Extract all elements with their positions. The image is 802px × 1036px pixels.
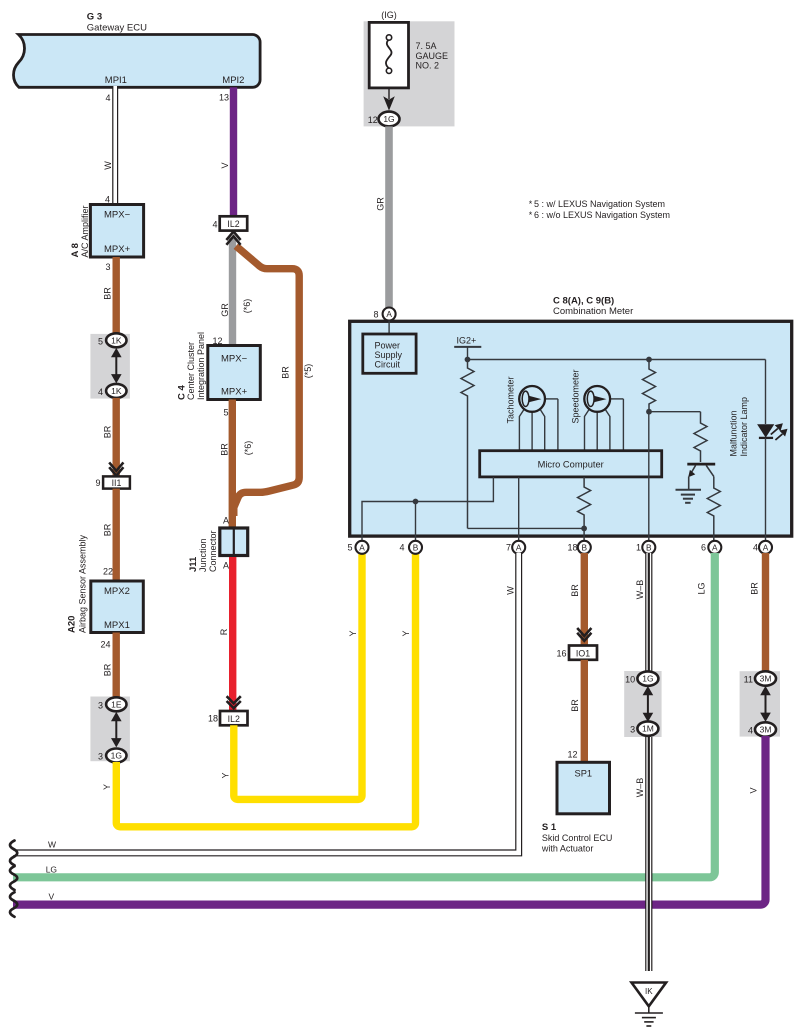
connector II1 [95,476,129,488]
component A20 Airbag Sensor Assembly [67,534,144,633]
svg-text:Y: Y [221,772,231,778]
pin 8 A top [373,308,395,321]
wire BR pin 18B to IO1 [570,553,588,646]
double arrow between 1G and 1M [643,686,654,722]
svg-text:R: R [219,628,229,635]
wire pin 1B vertical [648,412,650,548]
pin 5 A meter [347,541,368,554]
pin 4 B meter [399,541,422,554]
wire BR A8 to 1K [103,257,120,334]
svg-text:10: 10 [625,675,635,685]
svg-text:BR: BR [570,584,580,597]
svg-text:MPI1: MPI1 [105,75,127,86]
svg-text:Malfunction: Malfunction [729,410,739,456]
svg-text:GAUGE: GAUGE [416,51,449,61]
svg-text:A: A [359,542,365,552]
label Y below pin 5A [348,630,358,636]
svg-text:A: A [763,542,769,552]
block Power Supply Circuit [363,334,416,373]
component A8 A/C Amplifier [70,205,144,258]
svg-text:MPX−: MPX− [221,354,248,365]
svg-text:1: 1 [636,543,641,553]
pin 3 below A8 [105,262,110,272]
svg-text:MPX+: MPX+ [104,244,131,255]
svg-text:BR: BR [281,366,291,379]
svg-text:BR: BR [103,425,113,438]
svg-text:4: 4 [748,726,753,736]
pin 5 below C4 [223,408,228,418]
node IG2+ rail [454,335,765,362]
pin A above J11 [223,516,229,526]
svg-text:7. 5A: 7. 5A [416,41,437,51]
wire R1 to pin18 node [468,527,585,529]
svg-text:BR: BR [103,287,113,300]
svg-text:LG: LG [697,582,707,594]
wire Y from 1G to meter pin 4B [102,553,416,827]
wire micro to pin 7A [518,477,520,548]
connector 11 3M [744,671,776,685]
pin A below J11 [223,561,229,571]
wire V from G3 MPI2 to IL2 [220,87,237,217]
connector 4 IL2 top [212,216,247,230]
ground symbol transistor emitter [676,490,702,503]
fuse block gray background [364,21,455,126]
svg-text:GR: GR [376,197,386,211]
resistor R3 base [694,412,707,462]
svg-text:S 1: S 1 [542,822,557,833]
svg-text:B: B [582,542,588,552]
wire R J11 to IL2 bottom [219,557,236,711]
svg-text:4: 4 [105,93,110,103]
svg-text:MPX1: MPX1 [104,620,130,631]
wire W-B pin 1B to ground [635,553,649,971]
svg-text:SP1: SP1 [575,769,593,779]
label C8(A) C9(B) Combination Meter [553,295,633,317]
svg-text:(IG): (IG) [381,10,397,20]
svg-text:24: 24 [100,640,110,650]
svg-text:4: 4 [399,543,404,553]
label (IG) [381,10,397,20]
svg-text:13: 13 [219,93,229,103]
pin 4 A meter right [753,541,772,554]
resistor R1 below IG2+ [461,360,474,529]
svg-text:Speedometer: Speedometer [571,369,581,423]
svg-text:GR: GR [220,303,230,317]
wire Y from IL2 bottom to meter pin 5A [221,553,363,799]
svg-text:BR: BR [750,582,760,595]
wire GR IL2 to C4 pin 12 [220,238,252,346]
svg-text:Tachometer: Tachometer [506,376,516,423]
svg-text:BR: BR [220,443,230,456]
svg-text:Y: Y [348,630,358,636]
connector J11 Junction Connector [188,528,248,572]
wire BR A20 to 1E [103,633,120,698]
wire node to transistor branch [649,411,701,413]
svg-text:C 8(A), C 9(B): C 8(A), C 9(B) [553,295,614,306]
svg-text:12: 12 [567,750,577,760]
pin 6 A meter [701,541,721,554]
svg-text:A: A [386,309,392,319]
svg-text:V: V [49,892,55,902]
pin 22 above A20 [103,567,113,577]
svg-text:BR: BR [103,663,113,676]
wire BR (*5) bypass from IL2 to J11 [234,246,313,516]
svg-text:1K: 1K [111,386,122,396]
svg-text:II1: II1 [112,478,122,488]
wire BR II1 to A20 [103,489,120,582]
wire W from G3 MPI1 to A8 MPX- [103,86,115,205]
pin 12 above C4 [212,336,222,346]
svg-text:MPX−: MPX− [104,210,131,221]
svg-text:A: A [223,561,229,571]
svg-text:(*6): (*6) [243,441,253,456]
wire V 3M to left edge [13,736,766,905]
note *5 *6 LEXUS Navigation [529,199,670,220]
svg-text:(*5): (*5) [303,364,313,379]
harness continuation squiggle W [10,841,17,866]
svg-text:1G: 1G [642,674,653,684]
arrow from fuse to 1G [383,88,395,111]
ECU G3 Gateway ECU body [14,35,261,88]
svg-text:Center Cluster: Center Cluster [186,342,196,400]
svg-text:Combination Meter: Combination Meter [553,306,633,317]
svg-text:W: W [48,840,56,850]
svg-text:16: 16 [556,649,566,659]
connector 3 1M [630,721,658,735]
svg-text:3M: 3M [760,725,772,735]
component C4 Center Cluster Integration Panel [176,332,260,400]
pin 12 above SP1 [567,750,577,760]
connector 3 1G [98,749,127,763]
svg-text:Airbag Sensor Assembly: Airbag Sensor Assembly [78,534,88,633]
svg-text:Power: Power [375,340,401,350]
svg-text:B: B [413,542,419,552]
component S1 Skid Control ECU SP1 [541,762,613,853]
svg-text:Y: Y [401,630,411,636]
node G3 Gateway ECU label [87,12,147,34]
pin 7 A meter [506,541,525,554]
svg-text:V: V [220,162,230,168]
wire BR (*6) C4 to J11 [220,400,254,529]
connector 5 1K [98,333,127,347]
chevron splice below IL2 top [226,232,240,245]
wire BR pin 4A to 3M [750,553,770,673]
wire BR IO1 to SP1 [570,660,588,763]
svg-text:* 5 : w/ LEXUS Navigation Syst: * 5 : w/ LEXUS Navigation System [529,199,665,209]
connector 16 IO1 [556,646,597,660]
wire W pin 7A to left edge [13,553,519,853]
svg-text:9: 9 [95,478,100,488]
speedometer gauge [571,369,624,450]
svg-text:W–B: W–B [635,778,645,798]
resistor R4 collector to pin 6A [707,477,720,549]
svg-text:MPI2: MPI2 [222,75,244,86]
svg-text:4: 4 [212,220,217,230]
svg-text:1G: 1G [383,114,394,124]
svg-text:Indicator Lamp: Indicator Lamp [739,397,749,457]
svg-text:BR: BR [103,523,113,536]
wire pin8 to power supply circuit [388,321,390,335]
harness continuation squiggle LG [10,866,17,890]
double arrow between 3M connectors [760,686,771,722]
connector 3 1E [98,697,127,711]
svg-text:12: 12 [368,115,378,125]
connector 4 1K [98,384,127,398]
ECU Combination Meter body [350,321,792,536]
svg-text:W: W [103,161,113,170]
svg-text:Junction: Junction [198,538,208,572]
svg-text:3: 3 [630,725,635,735]
svg-text:Circuit: Circuit [375,359,401,369]
svg-text:3: 3 [105,262,110,272]
svg-text:4: 4 [98,387,103,397]
svg-text:1E: 1E [111,699,122,709]
svg-text:7: 7 [506,543,511,553]
connector 10 1G [625,671,658,685]
svg-text:W: W [506,586,516,595]
svg-text:Integration Panel: Integration Panel [196,332,206,400]
svg-text:8: 8 [373,309,378,319]
wire micro to pins 5A 4B [362,477,493,548]
wire GR fuse to meter pin 8A [376,126,393,307]
block Micro Computer [480,451,662,477]
svg-text:4: 4 [753,543,758,553]
svg-text:V: V [749,787,759,793]
wire BR 1K to II1 [103,398,120,477]
svg-text:3: 3 [98,700,103,710]
pin 4 MPI1 [105,93,110,103]
wire LG pin 6A to left edge [13,553,715,877]
svg-text:Skid Control ECU: Skid Control ECU [542,833,613,843]
connector 12 1G fuse [368,112,400,127]
double arrow between 1E and 1G [111,712,122,748]
svg-text:G 3: G 3 [87,12,102,23]
svg-text:Connector: Connector [208,530,218,572]
svg-text:6: 6 [701,543,706,553]
svg-text:22: 22 [103,567,113,577]
connector block 1E 1G gray [90,697,129,762]
svg-text:* 6 : w/o LEXUS Navigation Sys: * 6 : w/o LEXUS Navigation System [529,210,670,220]
svg-text:IL2: IL2 [227,219,239,229]
connector block 3M gray right [740,671,780,736]
resistor R2 at pin1 branch [643,357,656,415]
label Y below pin 4B [401,630,411,636]
svg-text:18: 18 [208,714,218,724]
chevron splice above II1 [109,462,123,475]
svg-text:Micro Computer: Micro Computer [538,459,604,469]
svg-text:3: 3 [98,752,103,762]
svg-text:11: 11 [744,675,753,685]
svg-text:W–B: W–B [635,580,645,600]
svg-text:5: 5 [223,408,228,418]
svg-text:MPX2: MPX2 [104,586,130,597]
pin 1 B meter [636,541,655,554]
svg-text:5: 5 [98,336,103,346]
connector block 1K gray [90,334,129,399]
svg-text:A: A [516,542,522,552]
chevron splice above IO1 [577,628,591,641]
connector block 1G 1M gray [624,671,661,737]
svg-text:A: A [712,542,718,552]
ground IK [632,983,667,1027]
tachometer gauge [506,376,558,450]
svg-text:1G: 1G [111,751,122,761]
svg-text:LG: LG [46,865,57,875]
svg-text:(*6): (*6) [242,299,252,314]
svg-text:IG2+: IG2+ [457,335,477,345]
svg-text:NO. 2: NO. 2 [416,61,440,71]
svg-text:IO1: IO1 [576,648,590,658]
svg-text:1M: 1M [642,724,654,734]
svg-text:Supply: Supply [375,350,403,360]
pin 4 above A8 [105,195,110,205]
fuse 7.5A GAUGE NO.2 [369,22,448,88]
svg-text:A: A [223,516,229,526]
svg-text:IK: IK [645,987,653,996]
svg-text:18: 18 [567,543,577,553]
harness continuation squiggle V [10,892,17,917]
LED Malfunction Indicator Lamp [729,360,788,549]
svg-text:IL2: IL2 [228,714,240,724]
svg-text:MPX+: MPX+ [221,387,248,398]
svg-text:3M: 3M [760,674,772,684]
svg-text:Gateway ECU: Gateway ECU [87,22,147,33]
chevron splice above IL2 bottom [227,696,241,708]
svg-text:A/C Amplifier: A/C Amplifier [80,205,90,257]
connector 4 3M [748,722,776,736]
pin 24 below A20 [100,640,110,650]
double arrow between 1K connectors [111,348,122,384]
transistor Q1 [687,464,715,490]
svg-text:Y: Y [102,784,112,790]
pin 18 B meter [567,541,590,554]
svg-text:5: 5 [347,543,352,553]
svg-text:BR: BR [570,699,580,712]
resistor R5 below micro to pin 18B [578,477,591,548]
svg-text:A20: A20 [67,616,78,633]
pin 13 MPI2 [219,93,229,103]
svg-text:with Actuator: with Actuator [541,844,594,854]
connector 18 IL2 bottom [208,711,248,725]
svg-text:B: B [646,542,652,552]
svg-text:1K: 1K [111,335,122,345]
